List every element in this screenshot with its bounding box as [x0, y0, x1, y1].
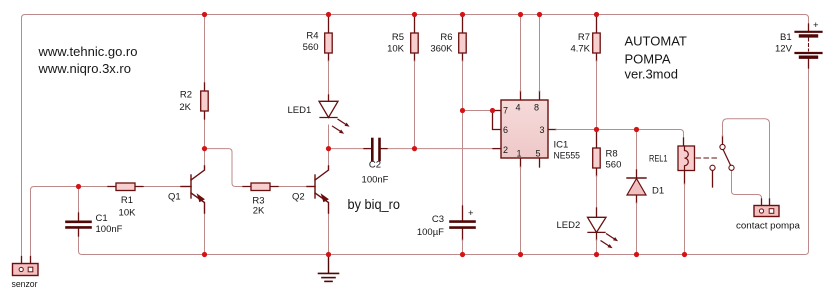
svg-text:100µF: 100µF	[417, 227, 444, 238]
svg-text:LED2: LED2	[557, 220, 581, 231]
svg-text:R8: R8	[606, 149, 618, 160]
svg-text:AUTOMAT: AUTOMAT	[625, 34, 687, 49]
svg-text:7: 7	[503, 106, 508, 116]
svg-text:LED1: LED1	[288, 105, 312, 116]
IC U1 NE555 body	[501, 100, 548, 158]
wire: senzor pin2 up and mid wire y=186.5 to R1	[31, 187, 109, 257]
wire: R6 vertical from rail to node E	[462, 15, 464, 34]
resistor R6	[459, 33, 467, 53]
top rail junction at pin4	[518, 12, 523, 17]
svg-text:560: 560	[606, 160, 622, 171]
svg-text:POMPA: POMPA	[625, 52, 671, 67]
wire: node E to 555 pin 7	[463, 110, 493, 112]
bottom rail junction at Q1 emitter	[202, 252, 207, 257]
wire: 555 pin 4 up to rail	[520, 91, 522, 100]
wire: R8 bottom to LED2	[596, 168, 598, 176]
svg-text:1: 1	[517, 149, 522, 159]
wire: R5 vertical from rail to node D	[414, 15, 416, 34]
svg-text:R1: R1	[121, 195, 133, 206]
svg-text:100nF: 100nF	[362, 175, 389, 186]
svg-text:8: 8	[534, 103, 539, 113]
svg-text:3: 3	[540, 125, 545, 135]
connector senzor	[22, 257, 31, 264]
resistor R2	[204, 83, 206, 119]
svg-text:C1: C1	[96, 213, 108, 224]
resistor R7	[596, 15, 598, 34]
svg-text:Q1: Q1	[168, 192, 181, 203]
battery B1	[808, 24, 810, 31]
wire: 555 pin 1 down to ground rail	[520, 158, 522, 167]
svg-text:REL1: REL1	[649, 154, 668, 165]
ground symbol	[328, 255, 330, 274]
wire: switch NC contact stub down	[712, 170, 714, 187]
diode D1	[627, 177, 646, 179]
top rail junction at R4	[326, 12, 331, 17]
wire: R3 right lead to Q2 base	[278, 186, 307, 188]
wire: C1 top lead to node A	[78, 187, 80, 214]
bottom rail junction at ground	[326, 252, 331, 257]
wire: outer frame (VCC top rail, left rail to senzor, right rail to battery)	[22, 15, 809, 257]
svg-text:2K: 2K	[253, 206, 265, 217]
resistor R4	[325, 33, 333, 53]
node E junction (R6 / pin7 / C3)	[460, 108, 465, 113]
svg-text:IC1: IC1	[554, 139, 569, 150]
resistor R5	[411, 33, 419, 53]
node D junction (R5 / C2 / pin2)	[412, 146, 417, 151]
bottom rail junction at pin1	[518, 252, 523, 257]
wire: C3 bottom to ground rail	[462, 229, 464, 241]
svg-text:2K: 2K	[179, 102, 191, 113]
svg-text:2: 2	[503, 145, 508, 155]
wire: 555 pin 5 stub	[539, 158, 541, 167]
svg-text:100nF: 100nF	[96, 224, 123, 235]
wire: R2 top lead from rail	[204, 15, 206, 84]
wire: R1 right lead to Q1 base	[143, 186, 181, 188]
svg-text:Q2: Q2	[292, 192, 305, 203]
node A junction (C1 / mid wire)	[76, 184, 81, 189]
LED LED1	[319, 95, 338, 118]
wire: Q1 collector up to node B	[204, 149, 206, 166]
node F junction (pin6 loop)	[490, 108, 495, 113]
svg-text:B1: B1	[780, 32, 792, 43]
svg-text:+: +	[468, 208, 474, 219]
svg-text:12V: 12V	[775, 44, 793, 55]
svg-text:www.tehnic.go.ro: www.tehnic.go.ro	[38, 44, 138, 59]
wire: node C to C2 left plate	[329, 148, 365, 150]
svg-text:ver.3mod: ver.3mod	[625, 67, 678, 82]
wire: D1 anode down to ground rail	[636, 195, 638, 203]
wire: LED1 cathode to node C	[328, 125, 330, 149]
svg-text:www.niqro.3x.ro: www.niqro.3x.ro	[38, 61, 131, 76]
wire: right rail battery to bottom corner and bottom rail to C1	[79, 68, 809, 255]
wire: C2 right plate to node D (R5) and on to 555 pin 2	[387, 148, 493, 150]
svg-text:senzor: senzor	[12, 279, 38, 290]
wire: R4 top from rail	[328, 15, 330, 34]
svg-text:R6: R6	[440, 32, 452, 43]
resistor R8	[593, 148, 601, 168]
svg-text:+: +	[813, 20, 819, 31]
svg-text:360K: 360K	[430, 44, 453, 55]
wire: D1 cathode up to node H	[636, 130, 638, 171]
bottom rail junction at REL1	[682, 252, 687, 257]
bottom rail junction at D1	[634, 252, 639, 257]
top rail junction at R2	[202, 12, 207, 17]
node C junction (LED1 / Q2 collector / C2)	[326, 146, 331, 151]
svg-text:4: 4	[516, 103, 521, 113]
wire: R8 top lead from node G	[596, 130, 598, 149]
node G junction (pin3 / R8)	[594, 127, 599, 132]
IC U1 pin number labels	[503, 103, 545, 159]
svg-text:R7: R7	[578, 32, 590, 43]
wire: node E down to C3	[462, 111, 464, 207]
wire: R2 bottom to node B	[204, 119, 206, 149]
svg-text:by biq_ro: by biq_ro	[348, 196, 401, 212]
svg-text:5: 5	[536, 149, 541, 159]
capacitor C1	[78, 213, 80, 221]
transistor Q1	[181, 166, 205, 213]
resistor R3	[243, 186, 278, 188]
top rail junction at R6	[460, 12, 465, 17]
wire: REL1 bottom to ground rail	[684, 171, 686, 185]
bottom rail junction at C3	[460, 252, 465, 257]
svg-text:contact pompa: contact pompa	[736, 221, 801, 232]
svg-text:10K: 10K	[387, 44, 405, 55]
relay link dashed line	[696, 157, 717, 159]
wire: C1 bottom lead to bottom rail	[78, 229, 80, 237]
svg-text:C3: C3	[432, 214, 444, 225]
node H junction (pin3 / D1)	[634, 127, 639, 132]
svg-text:R5: R5	[392, 32, 404, 43]
top rail junction at pin8	[537, 12, 542, 17]
connector contact pompa	[754, 206, 779, 217]
svg-text:10K: 10K	[119, 208, 137, 219]
svg-text:NE555: NE555	[554, 151, 581, 162]
wire: 555 pin 8 up to rail	[539, 91, 541, 100]
wire: 555 pin 3 to relay (node G at R8, node H at D1)	[548, 129, 556, 131]
svg-text:R4: R4	[306, 31, 318, 42]
capacitor C3 (polarized)	[451, 220, 475, 223]
wire: switch common up and over to contact pompa right pin	[722, 136, 724, 144]
transistor Q2	[307, 166, 329, 213]
wire: Q1 emitter down to bottom rail	[204, 213, 206, 255]
relay coil REL1	[678, 146, 695, 171]
svg-text:560: 560	[303, 42, 319, 53]
wire: R4 bottom to LED1	[328, 53, 330, 61]
resistor R1	[108, 186, 143, 188]
wire: node B to R3 (corner)	[205, 149, 244, 187]
wire: Q2 collector up to node C	[328, 149, 330, 166]
svg-text:C2: C2	[369, 160, 381, 171]
svg-text:R2: R2	[180, 90, 192, 101]
wire: pin 6 loop to node F	[493, 111, 502, 130]
capacitor C2	[364, 148, 371, 150]
svg-text:6: 6	[503, 125, 508, 135]
switch SW (relay contacts)	[720, 144, 725, 149]
wire: LED2 cathode down to ground rail	[596, 232, 598, 240]
top rail junction at R7	[594, 12, 599, 17]
node B junction (R2 / Q1 collector)	[202, 146, 207, 151]
wire: 555 pin 2 stub	[493, 148, 501, 150]
wire: Q2 emitter down to ground rail	[328, 213, 330, 255]
top rail junction at R5	[412, 12, 417, 17]
wire: switch NO contact down to contact pompa left pin	[732, 170, 762, 199]
LED LED2	[588, 217, 607, 232]
svg-text:4.7K: 4.7K	[570, 44, 590, 55]
bottom rail junction at LED2	[594, 252, 599, 257]
svg-text:D1: D1	[652, 186, 664, 197]
